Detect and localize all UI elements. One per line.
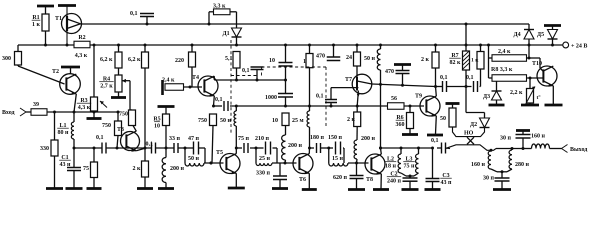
svg-text:Выход: Выход <box>570 147 587 153</box>
svg-text:Д3: Д3 <box>483 94 490 100</box>
svg-text:0,1: 0,1 <box>316 94 324 100</box>
svg-text:56: 56 <box>391 96 397 102</box>
svg-text:2 к: 2 к <box>421 57 430 63</box>
svg-text:43 п: 43 п <box>441 180 453 186</box>
svg-text:160 н: 160 н <box>531 134 546 140</box>
svg-text:Т9: Т9 <box>415 94 422 100</box>
svg-text:НО: НО <box>464 131 474 137</box>
svg-text:Т4: Т4 <box>192 75 199 81</box>
svg-text:25 м: 25 м <box>292 118 304 124</box>
svg-text:160 н: 160 н <box>471 162 486 168</box>
svg-text:R2: R2 <box>78 35 85 41</box>
svg-text:25 н: 25 н <box>259 156 271 162</box>
svg-text:Т6: Т6 <box>299 177 306 183</box>
svg-text:0,1: 0,1 <box>466 75 474 81</box>
svg-text:360: 360 <box>396 122 405 128</box>
svg-text:2 к: 2 к <box>133 166 142 172</box>
svg-text:Д2: Д2 <box>470 122 477 128</box>
svg-text:47 п: 47 п <box>188 136 200 142</box>
svg-text:220: 220 <box>175 58 184 64</box>
svg-text:R8 3,3 к: R8 3,3 к <box>491 67 513 73</box>
svg-text:620 п: 620 п <box>333 175 348 181</box>
svg-text:180 п: 180 п <box>310 135 325 141</box>
svg-text:750: 750 <box>119 112 128 118</box>
svg-text:0,1: 0,1 <box>215 97 223 103</box>
svg-text:50 н: 50 н <box>220 118 232 124</box>
svg-text:0,1: 0,1 <box>96 135 104 141</box>
svg-text:Т7: Т7 <box>345 77 352 83</box>
svg-text:1 к: 1 к <box>32 22 41 28</box>
svg-text:t°: t° <box>537 94 541 101</box>
svg-text:10: 10 <box>154 124 160 130</box>
svg-text:240 п: 240 п <box>387 179 402 185</box>
svg-text:6,2 к: 6,2 к <box>128 57 141 63</box>
svg-text:30 п: 30 п <box>500 136 512 142</box>
svg-text:0,1: 0,1 <box>431 138 439 144</box>
svg-text:0,1: 0,1 <box>130 11 138 17</box>
svg-text:18 н: 18 н <box>385 164 397 170</box>
svg-text:Д4: Д4 <box>514 32 521 38</box>
svg-text:Т3: Т3 <box>117 127 124 133</box>
svg-text:0,1: 0,1 <box>440 75 448 81</box>
svg-text:+ 24 В: + 24 В <box>571 44 587 50</box>
svg-text:10: 10 <box>272 118 278 124</box>
svg-text:Д5: Д5 <box>537 32 544 38</box>
svg-text:Т2: Т2 <box>52 69 59 75</box>
svg-text:Т8: Т8 <box>366 177 373 183</box>
svg-text:750: 750 <box>102 123 111 129</box>
svg-text:50 н: 50 н <box>364 56 376 62</box>
svg-text:75: 75 <box>83 166 89 172</box>
svg-text:50 н: 50 н <box>188 156 200 162</box>
svg-text:2 к: 2 к <box>347 117 356 123</box>
svg-text:43 н: 43 н <box>60 162 72 168</box>
svg-text:330 п: 330 п <box>256 171 271 177</box>
svg-text:2,4 к: 2,4 к <box>162 78 175 84</box>
svg-text:300: 300 <box>2 56 11 62</box>
svg-text:82 к: 82 к <box>450 60 462 66</box>
svg-text:200 н: 200 н <box>170 166 185 172</box>
svg-text:0,1: 0,1 <box>146 142 154 148</box>
svg-text:1: 1 <box>303 59 306 65</box>
svg-text:2,2 к: 2,2 к <box>510 90 523 96</box>
svg-text:2,4 к: 2,4 к <box>498 49 511 55</box>
svg-text:1000: 1000 <box>265 95 277 101</box>
svg-text:Д1: Д1 <box>223 31 230 37</box>
svg-text:150 п: 150 п <box>328 135 343 141</box>
svg-text:24: 24 <box>346 55 352 61</box>
svg-text:75 н: 75 н <box>404 164 416 170</box>
svg-text:200 н: 200 н <box>288 143 303 149</box>
svg-text:15 н: 15 н <box>332 156 344 162</box>
svg-text:80 н: 80 н <box>58 130 70 136</box>
svg-text:2,7 к: 2,7 к <box>100 84 113 90</box>
svg-text:6,2 к: 6,2 к <box>100 57 113 63</box>
svg-text:330: 330 <box>40 146 49 152</box>
svg-text:10: 10 <box>269 58 275 64</box>
svg-text:750: 750 <box>198 118 207 124</box>
svg-text:39: 39 <box>33 102 39 108</box>
svg-text:210 п: 210 п <box>255 136 270 142</box>
svg-text:33 п: 33 п <box>169 136 181 142</box>
svg-text:1 к: 1 к <box>471 58 479 64</box>
svg-text:200 н: 200 н <box>361 136 376 142</box>
svg-text:30 п: 30 п <box>483 176 495 182</box>
svg-text:Т1: Т1 <box>55 16 62 22</box>
svg-text:0,1: 0,1 <box>242 68 250 74</box>
svg-text:75 п: 75 п <box>238 136 250 142</box>
svg-text:470: 470 <box>385 69 394 75</box>
svg-text:4,3 к: 4,3 к <box>78 105 91 111</box>
svg-text:4,3 к: 4,3 к <box>75 53 88 59</box>
svg-text:50: 50 <box>440 116 446 122</box>
svg-text:470: 470 <box>316 54 325 60</box>
svg-text:280 н: 280 н <box>515 162 530 168</box>
svg-text:Вход: Вход <box>2 110 15 116</box>
svg-text:Т5: Т5 <box>216 150 223 156</box>
